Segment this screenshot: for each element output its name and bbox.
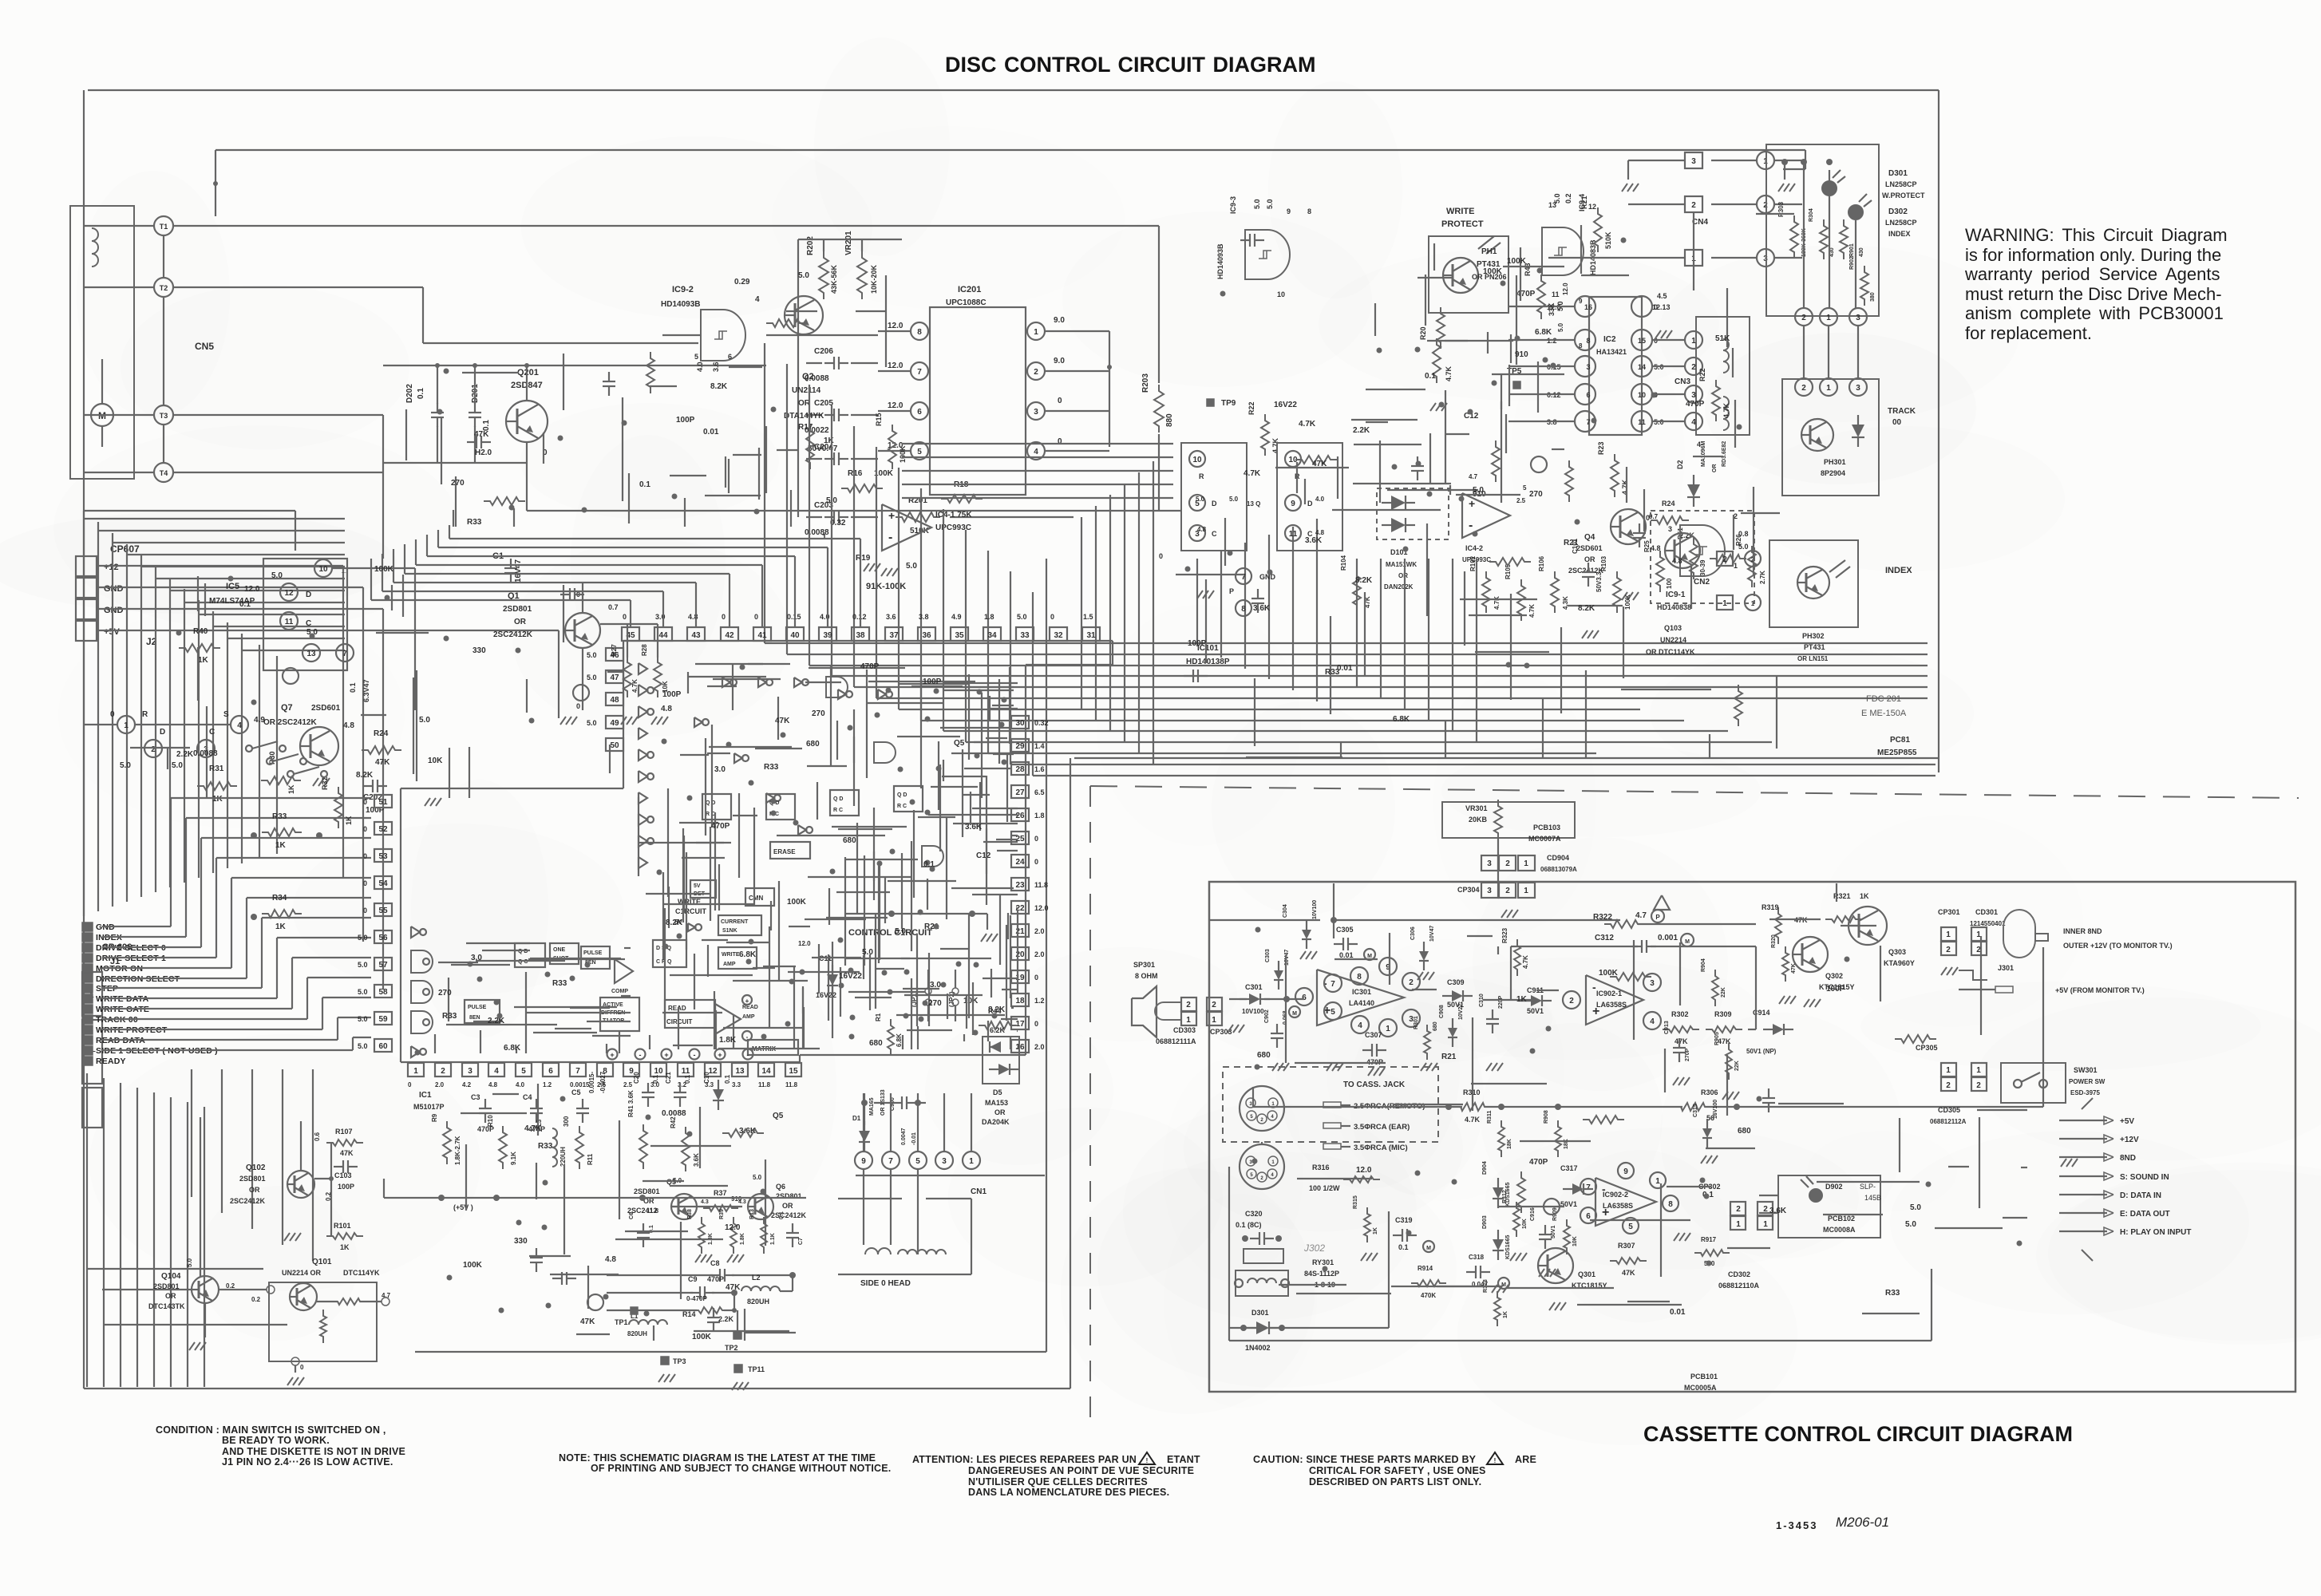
svg-text:3: 3 (1856, 314, 1860, 322)
svg-text:6.8K: 6.8K (896, 1033, 903, 1047)
svg-text:7: 7 (1586, 418, 1590, 426)
svg-text:13 Q: 13 Q (1247, 500, 1260, 508)
svg-text:5.0: 5.0 (358, 1015, 368, 1023)
svg-text:CD305: CD305 (1938, 1106, 1960, 1114)
svg-text:PCB101: PCB101 (1690, 1373, 1718, 1381)
svg-text:59: 59 (378, 1015, 388, 1024)
svg-text:0.01: 0.01 (1670, 1308, 1686, 1317)
svg-text:0: 0 (363, 879, 367, 887)
svg-text:C206: C206 (814, 347, 833, 356)
svg-text:4.3: 4.3 (738, 1199, 746, 1205)
svg-text:1: 1 (1034, 328, 1038, 337)
svg-text:0.1: 0.1 (684, 1074, 691, 1084)
svg-text:4.0: 4.0 (516, 1081, 525, 1088)
svg-text:2.0: 2.0 (435, 1081, 445, 1088)
svg-text:CD301: CD301 (1975, 908, 1998, 916)
svg-text:R106: R106 (1538, 555, 1545, 571)
svg-text:D903: D903 (1482, 1215, 1488, 1229)
svg-text:C902: C902 (1264, 1009, 1270, 1023)
svg-text:READ: READ (742, 1005, 758, 1010)
svg-text:4.7: 4.7 (1635, 911, 1647, 920)
svg-text:ME25P855: ME25P855 (1877, 749, 1917, 757)
svg-text:R323: R323 (1501, 927, 1508, 943)
svg-text:4: 4 (237, 721, 242, 730)
svg-text:6.8K: 6.8K (504, 1044, 521, 1053)
svg-text:T2: T2 (160, 284, 168, 292)
svg-text:C: C (209, 728, 215, 737)
svg-text:12.0: 12.0 (244, 585, 260, 594)
svg-text:R25: R25 (1643, 540, 1651, 552)
svg-text:PROTECT: PROTECT (1441, 219, 1484, 229)
svg-text:warranty period Service Agents: warranty period Service Agents (1964, 264, 2220, 284)
svg-text:WRITE: WRITE (722, 952, 740, 958)
svg-text:0.0015: 0.0015 (570, 1081, 590, 1088)
svg-text:0.1 (8C): 0.1 (8C) (1236, 1221, 1262, 1229)
svg-text:9.0: 9.0 (1054, 316, 1065, 325)
svg-text:100K: 100K (374, 565, 394, 574)
svg-text:47K: 47K (375, 758, 390, 767)
svg-text:11: 11 (285, 618, 294, 626)
svg-text:C7: C7 (798, 1238, 804, 1245)
svg-text:5.0: 5.0 (1253, 199, 1261, 209)
svg-text:+: + (718, 1051, 722, 1059)
svg-text:OR: OR (1398, 572, 1408, 579)
svg-text:10: 10 (1192, 456, 1202, 464)
svg-text:1: 1 (1976, 1066, 1981, 1075)
svg-text:8: 8 (1579, 342, 1583, 350)
svg-text:5.0: 5.0 (1229, 496, 1239, 503)
svg-text:R33: R33 (467, 518, 482, 527)
svg-text:LA4140: LA4140 (1349, 999, 1374, 1007)
svg-text:OR: OR (1584, 555, 1595, 563)
svg-text:100P: 100P (1826, 985, 1845, 994)
svg-text:D301: D301 (1888, 169, 1908, 178)
svg-text:R301: R301 (1414, 1016, 1419, 1029)
svg-text:1214550401: 1214550401 (1970, 920, 2006, 927)
svg-text:8ND: 8ND (2120, 1154, 2136, 1163)
svg-text:R319: R319 (1762, 903, 1779, 911)
svg-text:1-3453: 1-3453 (1776, 1519, 1817, 1531)
svg-text:C103: C103 (334, 1171, 352, 1179)
svg-text:R C: R C (706, 812, 715, 817)
svg-text:100K: 100K (1507, 257, 1527, 266)
svg-text:12.0: 12.0 (725, 1223, 741, 1232)
svg-text:9.1K: 9.1K (510, 1152, 517, 1165)
svg-text:0.0047: 0.0047 (901, 1128, 907, 1145)
svg-text:SW301: SW301 (2074, 1066, 2098, 1074)
svg-text:37: 37 (889, 631, 899, 640)
svg-text:0: 0 (1034, 835, 1038, 843)
svg-text:5: 5 (521, 1067, 526, 1076)
svg-text:!: ! (1146, 1457, 1149, 1464)
svg-text:12: 12 (284, 589, 294, 598)
svg-text:R904: R904 (1701, 958, 1706, 972)
svg-text:470P: 470P (711, 822, 730, 831)
svg-text:-: - (694, 1051, 696, 1059)
svg-text:CONTROL C1RCUIT: CONTROL C1RCUIT (848, 928, 932, 938)
svg-text:Q103: Q103 (1664, 624, 1682, 632)
svg-text:5.0: 5.0 (358, 934, 368, 942)
svg-text:55: 55 (378, 907, 388, 915)
svg-text:2: 2 (1946, 946, 1951, 954)
svg-text:CD302: CD302 (1728, 1270, 1750, 1278)
svg-text:11: 11 (1289, 530, 1298, 539)
svg-text:3: 3 (1034, 408, 1038, 417)
svg-text:100K: 100K (1624, 595, 1631, 610)
svg-text:R107: R107 (335, 1128, 353, 1136)
svg-text:47K: 47K (1791, 963, 1797, 974)
svg-text:0.1: 0.1 (639, 480, 650, 489)
svg-text:1: 1 (413, 1067, 418, 1076)
svg-text:OR: OR (1712, 464, 1718, 473)
svg-text:1.8K: 1.8K (719, 1036, 737, 1045)
svg-text:TRACK: TRACK (1888, 407, 1916, 416)
svg-text:100: 100 (1666, 578, 1673, 589)
svg-text:8.2K: 8.2K (988, 1005, 1006, 1014)
svg-text:W.PROTECT: W.PROTECT (1882, 192, 1925, 199)
svg-text:for replacement.: for replacement. (1965, 323, 2092, 343)
svg-text:+12V: +12V (2120, 1136, 2139, 1144)
svg-text:6.3V47: 6.3V47 (362, 679, 370, 702)
svg-text:5.0: 5.0 (1910, 1203, 1921, 1212)
svg-text:0.6: 0.6 (314, 1132, 321, 1141)
svg-text:C307: C307 (1365, 1031, 1382, 1039)
svg-text:10: 10 (654, 1067, 663, 1076)
svg-text:40: 40 (790, 631, 800, 640)
svg-text:14: 14 (761, 1067, 771, 1076)
svg-text:0.1: 0.1 (724, 1074, 731, 1084)
svg-text:220P: 220P (1498, 995, 1504, 1009)
svg-text:14: 14 (1638, 363, 1646, 371)
svg-text:R33: R33 (1885, 1289, 1900, 1298)
svg-text:4.7: 4.7 (1469, 473, 1478, 480)
svg-text:OR: OR (994, 1108, 1006, 1116)
svg-text:3: 3 (1586, 363, 1590, 371)
svg-text:1: 1 (1751, 600, 1755, 607)
svg-text:R103: R103 (1600, 555, 1607, 571)
svg-text:R24: R24 (1662, 500, 1675, 508)
svg-text:10: 10 (1638, 391, 1646, 399)
svg-text:2: 2 (1409, 978, 1414, 987)
svg-text:8: 8 (1586, 337, 1590, 345)
svg-text:C319: C319 (1395, 1216, 1413, 1224)
svg-text:880: 880 (1165, 413, 1174, 427)
svg-text:1.8K: 1.8K (740, 1233, 745, 1245)
svg-text:6.8K: 6.8K (1535, 328, 1552, 337)
svg-text:3.0: 3.0 (471, 954, 482, 962)
svg-text:(+5V ): (+5V ) (453, 1203, 473, 1211)
svg-text:8P2904: 8P2904 (1821, 469, 1845, 477)
svg-text:-: - (747, 1051, 749, 1059)
svg-text:84S-1112P: 84S-1112P (1304, 1270, 1339, 1278)
svg-text:10K-20K: 10K-20K (870, 264, 878, 294)
svg-text:MC0007A: MC0007A (1528, 835, 1561, 843)
svg-text:380: 380 (1870, 292, 1876, 302)
svg-text:3.6: 3.6 (712, 361, 720, 372)
svg-text:M206-01: M206-01 (1836, 1515, 1889, 1530)
svg-text:35: 35 (955, 631, 964, 640)
svg-text:DANS LA NOMENCLATURE DES: DANS LA NOMENCLATURE DES PIECES. (968, 1487, 1169, 1498)
svg-text:R24: R24 (374, 729, 389, 738)
svg-text:T4: T4 (160, 469, 168, 477)
svg-text:47K: 47K (1312, 460, 1327, 468)
svg-text:C908: C908 (1439, 1005, 1445, 1018)
svg-text:M: M (1426, 1246, 1431, 1251)
svg-text:Q301: Q301 (1578, 1270, 1595, 1278)
svg-text:51: 51 (378, 798, 388, 807)
svg-text:2: 2 (1505, 859, 1510, 868)
svg-text:UPC1088C: UPC1088C (946, 298, 987, 307)
svg-text:2SC2412K: 2SC2412K (493, 630, 533, 639)
svg-text:READY: READY (96, 1057, 126, 1066)
svg-text:470P: 470P (707, 1275, 724, 1283)
svg-text:CP305: CP305 (1916, 1044, 1938, 1052)
svg-text:3.6K: 3.6K (965, 823, 983, 832)
svg-text:J301: J301 (1998, 964, 2014, 972)
svg-text:15: 15 (1638, 337, 1646, 345)
svg-text:ONE: ONE (553, 947, 566, 953)
svg-text:CRITICAL FOR SAFETY , USE: CRITICAL FOR SAFETY , USE ONES (1309, 1465, 1486, 1476)
svg-text:IC201: IC201 (958, 285, 981, 294)
svg-text:Q D: Q D (897, 792, 907, 798)
svg-text:M: M (1685, 939, 1690, 945)
svg-text:11.8: 11.8 (758, 1081, 771, 1088)
svg-text:PH301: PH301 (1824, 458, 1846, 466)
svg-text:22K: 22K (1721, 987, 1726, 997)
svg-text:OR: OR (249, 1186, 260, 1194)
svg-text:CN2: CN2 (1694, 578, 1710, 587)
svg-text:48: 48 (610, 696, 619, 705)
svg-text:29: 29 (1015, 742, 1025, 751)
svg-text:10K: 10K (963, 997, 979, 1005)
svg-text:OR LN151: OR LN151 (1797, 655, 1829, 662)
svg-text:39: 39 (823, 631, 832, 640)
svg-text:330: 330 (473, 646, 486, 655)
svg-text:R914: R914 (1418, 1265, 1433, 1272)
svg-text:18: 18 (1015, 997, 1025, 1005)
svg-text:33K: 33K (1548, 302, 1556, 316)
svg-text:8: 8 (1357, 973, 1362, 982)
svg-text:16V22: 16V22 (1274, 401, 1297, 409)
svg-text:COMP: COMP (611, 989, 628, 994)
svg-text:1: 1 (1691, 337, 1696, 346)
svg-text:0.01: 0.01 (703, 428, 719, 437)
svg-text:4.7K: 4.7K (1493, 596, 1501, 610)
svg-text:100K: 100K (463, 1261, 483, 1270)
svg-text:28: 28 (1015, 765, 1025, 774)
svg-text:C5: C5 (571, 1088, 581, 1096)
svg-text:TO CASS. JACK: TO CASS. JACK (1343, 1080, 1406, 1089)
svg-text:R27: R27 (611, 644, 618, 656)
svg-text:100P: 100P (923, 678, 942, 686)
svg-text:1: 1 (1946, 1066, 1951, 1075)
svg-text:0.29: 0.29 (734, 278, 750, 286)
svg-text:100K: 100K (787, 898, 807, 907)
svg-text:2.2K: 2.2K (1353, 426, 1370, 435)
svg-text:068812110A: 068812110A (1718, 1282, 1760, 1290)
svg-text:2: 2 (1801, 384, 1806, 393)
svg-text:KDS1665: KDS1665 (1505, 1235, 1511, 1259)
svg-text:4: 4 (755, 295, 760, 304)
svg-text:10K: 10K (428, 757, 443, 765)
svg-text:2: 2 (1505, 887, 1510, 895)
svg-text:Q D: Q D (706, 800, 715, 806)
svg-text:SLP-: SLP- (1860, 1183, 1876, 1191)
svg-text:4.7K: 4.7K (631, 679, 639, 693)
svg-text:4.7K: 4.7K (1621, 479, 1629, 495)
svg-text:12.0: 12.0 (798, 940, 811, 947)
svg-text:57: 57 (378, 961, 388, 970)
svg-text:UN2114: UN2114 (792, 386, 821, 395)
svg-text:7: 7 (1331, 980, 1335, 989)
svg-text:LA6358S: LA6358S (1596, 1001, 1627, 1009)
svg-text:100P: 100P (662, 690, 682, 699)
svg-text:5.0: 5.0 (120, 761, 131, 770)
svg-text:LN258CP: LN258CP (1885, 219, 1917, 227)
svg-text:1: 1 (124, 721, 129, 730)
svg-text:1.8K-2.7K: 1.8K-2.7K (454, 1136, 461, 1165)
svg-text:8.2K: 8.2K (1578, 604, 1595, 613)
svg-text:D: D (306, 591, 311, 599)
svg-text:47K: 47K (340, 1149, 354, 1157)
svg-text:0.1: 0.1 (652, 1074, 659, 1084)
svg-text:13: 13 (306, 650, 316, 658)
svg-text:5: 5 (917, 448, 922, 456)
svg-text:50V1 (NP): 50V1 (NP) (1746, 1048, 1777, 1055)
svg-text:1.8: 1.8 (984, 613, 994, 621)
svg-text:R908: R908 (1544, 1110, 1549, 1124)
svg-text:R33: R33 (552, 979, 567, 988)
svg-text:CD904: CD904 (1547, 854, 1569, 862)
svg-text:PULSE: PULSE (468, 1005, 487, 1010)
svg-text:CN3: CN3 (1675, 377, 1690, 386)
svg-text:4.7K: 4.7K (524, 1124, 542, 1133)
svg-text:10V100: 10V100 (1242, 1008, 1264, 1015)
svg-text:C6: C6 (629, 1212, 635, 1219)
svg-text:R14: R14 (682, 1310, 696, 1318)
svg-text:47K: 47K (1622, 1269, 1635, 1277)
svg-text:R: R (142, 710, 148, 719)
svg-text:CURRENT: CURRENT (721, 919, 749, 925)
svg-text:50V1: 50V1 (1527, 1007, 1544, 1015)
svg-text:Q201: Q201 (517, 368, 539, 377)
svg-text:DA204K: DA204K (982, 1118, 1010, 1126)
svg-text:2: 2 (1801, 314, 1806, 322)
svg-text:4.0: 4.0 (1315, 496, 1325, 503)
svg-text:IC4-1 75K: IC4-1 75K (935, 511, 972, 519)
svg-text:R102: R102 (1469, 555, 1477, 571)
svg-text:1K: 1K (824, 437, 835, 445)
svg-text:R39: R39 (719, 1209, 725, 1219)
svg-text:43K-56K: 43K-56K (830, 264, 838, 294)
svg-text:100K: 100K (692, 1333, 712, 1341)
svg-text:1K: 1K (1373, 1227, 1378, 1235)
svg-text:4.7K: 4.7K (1522, 955, 1529, 969)
svg-text:R42: R42 (670, 1116, 677, 1128)
svg-text:9: 9 (861, 1157, 866, 1166)
svg-text:11: 11 (1638, 418, 1646, 426)
svg-text:!: ! (1494, 1457, 1497, 1464)
svg-text:2SD601: 2SD601 (311, 704, 341, 713)
svg-text:4: 4 (1650, 1017, 1655, 1026)
svg-text:5.0: 5.0 (358, 988, 368, 996)
svg-text:5.0: 5.0 (587, 719, 597, 727)
svg-text:3: 3 (1487, 887, 1492, 895)
svg-text:4: 4 (1034, 448, 1038, 456)
svg-text:58: 58 (378, 988, 388, 997)
svg-text:SIDE 0 HEAD: SIDE 0 HEAD (860, 1279, 911, 1288)
svg-text:R28: R28 (641, 644, 648, 656)
svg-text:51K: 51K (1715, 334, 1730, 343)
svg-text:D902: D902 (1825, 1183, 1843, 1191)
svg-text:C312: C312 (1595, 934, 1614, 942)
svg-text:CN1: CN1 (971, 1187, 987, 1196)
svg-text:R310: R310 (1463, 1088, 1481, 1096)
svg-text:12.13: 12.13 (1652, 303, 1671, 311)
svg-text:1.8: 1.8 (1034, 812, 1045, 820)
svg-text:0.1: 0.1 (482, 420, 491, 431)
svg-text:POWER SW: POWER SW (2069, 1078, 2106, 1085)
svg-text:IC4-2: IC4-2 (1465, 544, 1483, 552)
svg-text:CD303: CD303 (1173, 1026, 1196, 1034)
svg-text:R311: R311 (1487, 1111, 1493, 1124)
svg-text:50V1: 50V1 (1551, 1226, 1556, 1238)
svg-text:2.2K: 2.2K (176, 750, 194, 759)
svg-text:9: 9 (1623, 1167, 1628, 1176)
svg-text:5: 5 (1628, 1223, 1633, 1231)
svg-text:4.7K: 4.7K (1528, 604, 1536, 618)
svg-text:Q302: Q302 (1825, 972, 1843, 980)
svg-text:3.6K: 3.6K (693, 1153, 700, 1167)
svg-text:D5: D5 (993, 1088, 1002, 1096)
svg-text:J302: J302 (1303, 1242, 1325, 1254)
svg-text:C3: C3 (471, 1093, 480, 1101)
svg-text:42: 42 (725, 631, 734, 640)
svg-text:0: 0 (1646, 514, 1650, 522)
svg-text:Q6: Q6 (776, 1183, 785, 1191)
svg-text:16: 16 (1015, 1043, 1025, 1052)
svg-text:4.7K: 4.7K (1299, 420, 1316, 429)
svg-text:1K: 1K (198, 656, 209, 665)
svg-text:R23: R23 (1597, 441, 1605, 455)
svg-text:52: 52 (378, 825, 388, 834)
svg-text:6: 6 (917, 408, 922, 417)
svg-text:S1NK: S1NK (722, 928, 737, 934)
svg-text:OR: OR (514, 618, 527, 626)
svg-text:C320: C320 (1245, 1210, 1263, 1218)
svg-text:0: 0 (300, 1364, 304, 1371)
svg-text:470P: 470P (1529, 1158, 1548, 1167)
svg-text:34: 34 (987, 631, 997, 640)
svg-text:+: + (1469, 497, 1475, 510)
svg-text:RY301: RY301 (1312, 1258, 1334, 1266)
svg-text:8: 8 (1241, 605, 1246, 614)
svg-text:330: 330 (514, 1237, 528, 1246)
svg-text:1.2: 1.2 (1034, 997, 1045, 1005)
svg-text:WARNING: This Circuit Diagram: WARNING: This Circuit Diagram (1965, 225, 2228, 245)
svg-text:CAUTION: SINCE THESE PARTS: CAUTION: SINCE THESE PARTS MARKED BY (1253, 1454, 1477, 1465)
svg-text:1: 1 (1763, 1220, 1768, 1229)
svg-text:C9: C9 (688, 1275, 698, 1283)
svg-text:FDC 201: FDC 201 (1866, 694, 1901, 704)
svg-text:0: 0 (363, 852, 367, 860)
svg-text:0: 0 (754, 613, 758, 621)
svg-text:2: 2 (1736, 1205, 1741, 1214)
svg-text:UN2214 OR: UN2214 OR (282, 1269, 322, 1277)
svg-text:91K-100K: 91K-100K (866, 582, 906, 591)
svg-text:TP3: TP3 (673, 1357, 686, 1365)
svg-text:VR201: VR201 (844, 231, 853, 255)
